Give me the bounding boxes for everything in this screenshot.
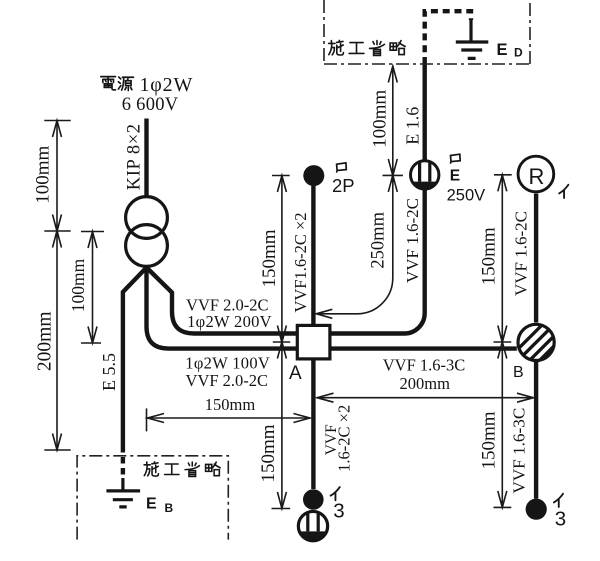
svg-text:150mm: 150mm	[259, 229, 280, 287]
svg-text:200mm: 200mm	[35, 312, 56, 372]
svg-text:150mm: 150mm	[478, 411, 499, 469]
label 1φ2W 200V	[187, 312, 272, 331]
label VVF / 1.6-2C ×2 (A down)	[323, 405, 354, 472]
pendant dot bottom-centre	[303, 489, 324, 510]
label 200mm	[35, 312, 56, 372]
label VVF 1.6-2C (R-B)	[512, 211, 531, 296]
svg-text:VVF 1.6-2C: VVF 1.6-2C	[512, 211, 531, 296]
svg-text:VVF 2.0-2C: VVF 2.0-2C	[186, 371, 269, 390]
label ED	[497, 41, 524, 60]
label 3 (bottom-centre)	[333, 500, 344, 523]
wire secondary to ground EB	[123, 268, 147, 479]
svg-text:1φ2W 200V: 1φ2W 200V	[187, 312, 272, 331]
svg-text:3: 3	[333, 500, 344, 523]
svg-text:R: R	[529, 164, 545, 189]
svg-text:1.6-2C ×2: 1.6-2C ×2	[334, 405, 353, 472]
svg-text:1φ2W: 1φ2W	[140, 74, 194, 96]
svg-text:2P: 2P	[332, 175, 355, 196]
svg-text:B: B	[165, 501, 174, 515]
junction box A	[289, 325, 330, 384]
junction box B hatched circle	[507, 314, 569, 381]
dimension 100mm inner (transformer to A level)	[81, 232, 104, 344]
dimension 100mm (top box to outlet)	[383, 66, 403, 182]
label VVF 1.6-2C (riser)	[403, 198, 422, 283]
label 3 (bottom-right)	[555, 508, 566, 531]
lamp receptacle R	[518, 156, 554, 192]
label VVF 1.6-3C (B down)	[510, 408, 529, 494]
dimension 100mm left outer	[44, 121, 70, 451]
label E (outlet)	[450, 167, 460, 184]
outlet E 250V	[411, 161, 439, 189]
wire A down to pendant	[311, 361, 315, 490]
svg-text:150mm: 150mm	[258, 424, 279, 482]
svg-text:D: D	[514, 46, 523, 60]
wire B up to lamp R	[534, 194, 538, 323]
svg-text:100mm: 100mm	[68, 258, 88, 312]
ceiling light fitting bottom-centre	[298, 511, 327, 540]
label イ (lamp R)	[559, 185, 568, 198]
svg-text:VVF1.6-2C ×2: VVF1.6-2C ×2	[291, 212, 310, 312]
svg-text:E 1.6: E 1.6	[402, 107, 422, 145]
svg-text:100mm: 100mm	[33, 145, 54, 203]
wire secondary 100V to box A	[147, 268, 297, 349]
dimension 150mm (B to pendant)	[494, 335, 512, 507]
construction-omitted box top	[324, 0, 530, 64]
wire A right to outlet riser	[332, 64, 425, 334]
dimension 200mm left outer	[44, 224, 70, 450]
dimension 250mm leader	[316, 169, 397, 319]
label 200mm (A-B)	[399, 374, 450, 393]
svg-text:KIP 8×2: KIP 8×2	[125, 123, 145, 190]
dimension 200mm horizontal (A to B)	[317, 393, 534, 402]
svg-text:1φ2W 100V: 1φ2W 100V	[185, 354, 270, 373]
svg-text:150mm: 150mm	[478, 227, 499, 285]
svg-text:E: E	[497, 41, 508, 59]
svg-text:B: B	[513, 364, 524, 381]
svg-text:250V: 250V	[447, 187, 486, 205]
label VVF 2.0-2C (200V)	[186, 296, 269, 315]
transformer T	[126, 197, 168, 267]
label E 1.6	[402, 107, 422, 145]
svg-text:A: A	[289, 363, 302, 384]
label 100mm (riser)	[370, 90, 391, 148]
wire KIP high-voltage feed	[144, 119, 148, 197]
label イ (bottom-right)	[554, 494, 563, 507]
label VVF 1.6-3C (A-B)	[383, 356, 466, 375]
svg-text:3: 3	[555, 508, 566, 531]
construction-omitted box bottom-left	[77, 456, 228, 540]
ground symbol EB	[106, 478, 140, 507]
label KIP 8×2	[125, 123, 145, 190]
label 150mm (A-pendant)	[258, 424, 279, 482]
label 250mm	[368, 211, 388, 268]
svg-text:VVF 1.6-3C: VVF 1.6-3C	[510, 408, 529, 494]
svg-text:200mm: 200mm	[399, 374, 450, 393]
wire A right to junction B	[332, 346, 517, 350]
svg-text:150mm: 150mm	[205, 395, 256, 414]
dashed wire inside top box to ED	[425, 11, 471, 64]
label VVF1.6-2C ×2	[291, 212, 310, 312]
dimension 150mm horizontal (transformer line to A drop)	[147, 408, 311, 431]
pendant dot bottom-right	[526, 499, 547, 520]
wire secondary 200V to box A	[147, 268, 297, 334]
svg-text:VVF 1.6-2C: VVF 1.6-2C	[403, 198, 422, 283]
label イ (bottom-centre)	[331, 487, 340, 500]
svg-text:E 5.5: E 5.5	[99, 353, 119, 391]
dimension 150mm (R to B)	[494, 175, 512, 349]
label 100mm (left outer)	[33, 145, 54, 203]
wire A up to switch 2P	[311, 183, 315, 324]
dimension 150mm (A to pendant)	[272, 335, 291, 508]
label 100mm (inner)	[68, 258, 88, 312]
svg-text:250mm: 250mm	[368, 211, 388, 268]
label 250V	[447, 187, 486, 205]
svg-text:100mm: 100mm	[370, 90, 391, 148]
label source 電源 1φ2W / 6 600V	[101, 74, 193, 115]
label ロ (2P)	[337, 163, 347, 172]
switch 2P black dot	[303, 165, 324, 186]
svg-text:E: E	[450, 167, 460, 184]
svg-text:6 600V: 6 600V	[122, 95, 179, 115]
label E 5.5	[99, 353, 119, 391]
label 150mm (R-B)	[478, 227, 499, 285]
wire B down to pendant	[534, 362, 538, 499]
label EB	[146, 496, 174, 516]
label 150mm (horizontal)	[205, 395, 256, 414]
label 150mm (2P-A)	[259, 229, 280, 287]
dimension 150mm (2P to A)	[272, 176, 290, 349]
label 2P	[332, 175, 355, 196]
label 150mm (B-pendant)	[478, 411, 499, 469]
label ロ (outlet)	[451, 154, 461, 163]
svg-text:E: E	[146, 496, 157, 513]
label VVF 2.0-2C (100V)	[186, 371, 269, 390]
ground symbol ED	[456, 19, 489, 58]
label 1φ2W 100V	[185, 354, 270, 373]
svg-text:VVF 1.6-3C: VVF 1.6-3C	[383, 356, 466, 375]
